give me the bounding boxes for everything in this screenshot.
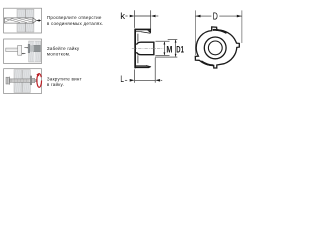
pictogram 3 red rotation arrow bbox=[36, 73, 41, 87]
M dimension bbox=[155, 41, 169, 56]
pictogram 3 bolt bbox=[6, 76, 37, 85]
thread hole (top view) bbox=[208, 41, 222, 55]
svg-text:Забейте гайку: Забейте гайку bbox=[47, 45, 80, 51]
pictogram 1 drill body bbox=[4, 18, 36, 23]
svg-text:D1: D1 bbox=[176, 44, 184, 54]
pictogram 3 frame bbox=[4, 69, 42, 94]
flange back face bbox=[137, 34, 139, 42]
bottom prong bbox=[136, 66, 151, 69]
centerline bbox=[132, 47, 164, 49]
pictogram 1 arrow bbox=[37, 19, 41, 22]
pictogram 1 board left bbox=[17, 9, 25, 32]
D1 dimension bbox=[155, 39, 177, 57]
svg-text:в гайку.: в гайку. bbox=[47, 81, 64, 87]
pictogram 2 wood block bbox=[29, 41, 41, 62]
barrel ring (top view) bbox=[204, 37, 226, 59]
svg-text:k: k bbox=[120, 11, 125, 22]
pictogram 3 board left bbox=[14, 70, 22, 93]
D dimension bbox=[195, 10, 242, 55]
flange outline with prongs (top view) bbox=[195, 27, 239, 68]
pictogram 2 hammer bbox=[6, 45, 22, 55]
svg-text:D: D bbox=[213, 12, 218, 23]
svg-text:M: M bbox=[166, 44, 172, 54]
caption 1 bbox=[47, 15, 104, 87]
pictogram 1 board right bbox=[26, 9, 34, 32]
k dimension bbox=[125, 10, 158, 32]
svg-text:Просверлите отверстие: Просверлите отверстие bbox=[47, 15, 102, 20]
pictogram 2 arrow bbox=[22, 47, 29, 54]
pictogram 1 frame bbox=[4, 8, 42, 33]
top prong bbox=[136, 29, 151, 34]
pictogram 2 nut in block bbox=[34, 45, 41, 52]
L dimension bbox=[125, 58, 162, 83]
pictogram 3 board right bbox=[22, 70, 30, 93]
pictogram 3 nut bbox=[30, 76, 32, 85]
svg-text:L: L bbox=[120, 74, 124, 84]
svg-text:в соединяемых деталях.: в соединяемых деталях. bbox=[47, 21, 104, 26]
svg-text:Закрутите винт: Закрутите винт bbox=[47, 76, 82, 81]
flange front face bbox=[134, 29, 136, 69]
pictogram 2 frame bbox=[4, 39, 42, 64]
svg-text:молотком.: молотком. bbox=[47, 52, 71, 57]
barrel bbox=[137, 42, 154, 55]
